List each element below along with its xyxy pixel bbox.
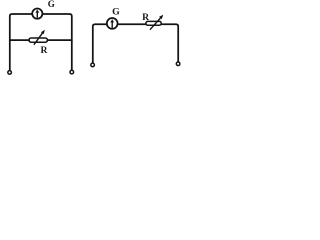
terminal (left circuit, right) <box>70 70 74 74</box>
galvanometer G1 (circle) <box>32 9 42 19</box>
terminal (left circuit, left) <box>8 71 12 75</box>
rheostat R1 body box <box>29 38 47 42</box>
galvanometer G2 needle arrow <box>111 21 113 27</box>
rheostat R1 diagonal arrow <box>34 32 43 44</box>
rheostat R2 body box <box>146 21 161 25</box>
wire: left vertical + top-left corner + top wire to galvanometer <box>10 14 33 70</box>
terminal (right circuit, right) <box>176 62 180 66</box>
terminal (right circuit, left) <box>91 63 95 67</box>
wire: galvanometer to rheostat <box>118 23 146 25</box>
svg-text:G: G <box>48 0 55 9</box>
wire: middle branch, right segment <box>47 39 72 41</box>
svg-text:G: G <box>112 7 120 18</box>
svg-text:R: R <box>142 12 150 23</box>
wire: middle branch, left segment <box>10 39 29 41</box>
svg-text:R: R <box>41 45 49 56</box>
rheostat R2 diagonal arrow <box>150 18 161 30</box>
galvanometer G1 needle arrow <box>36 12 38 18</box>
galvanometer G2 (circle) <box>107 18 118 29</box>
wire: rheostat to top-right corner + right vertical <box>161 24 178 61</box>
wire: left vertical + top-left corner + wire to galvanometer <box>93 24 107 62</box>
wire: top wire from galvanometer to top-right corner + right vertical <box>42 14 71 70</box>
